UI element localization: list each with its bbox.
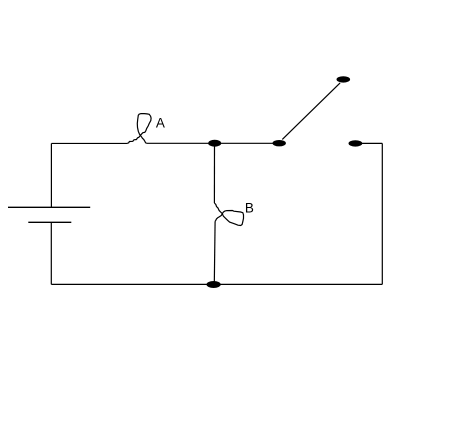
wire bottom rail bbox=[51, 283, 382, 285]
node switch right terminal bbox=[349, 140, 363, 146]
svg-text:A: A bbox=[156, 115, 165, 130]
svg-text:B: B bbox=[245, 201, 254, 216]
wire top middle (lamp A to switch pivot) bbox=[146, 142, 275, 144]
node top junction (middle vertical joins top wire) bbox=[208, 140, 221, 147]
wire right vertical bbox=[381, 143, 383, 284]
battery V1 short plate bbox=[28, 221, 71, 223]
lamp A (self-crossing loop on top wire) bbox=[127, 114, 151, 144]
node switch blade tip bbox=[337, 76, 351, 82]
node switch pivot (left terminal of open switch) bbox=[273, 140, 286, 146]
battery V1 long plate bbox=[8, 206, 90, 208]
wire top-left horizontal (battery top to lamp A) bbox=[51, 142, 127, 144]
wire middle vertical lower (lamp B to bottom rail) bbox=[213, 221, 216, 284]
switch S1 arm (open blade) bbox=[282, 83, 340, 139]
wire left vertical upper (corner down to battery plate) bbox=[50, 143, 52, 207]
wire left vertical lower (battery to bottom rail) bbox=[50, 222, 52, 284]
node bottom junction bbox=[207, 281, 221, 288]
wire middle vertical upper (junction down to lamp B) bbox=[213, 143, 215, 203]
wire top-right stub (switch terminal to right vertical) bbox=[357, 142, 382, 144]
lamp B (self-crossing loop on middle wire) bbox=[214, 203, 243, 226]
